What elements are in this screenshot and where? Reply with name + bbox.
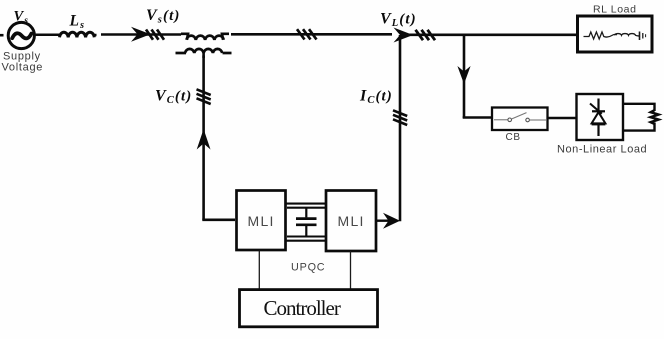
wire VC branch (series injection) xyxy=(202,56,205,221)
wire bus to RL load xyxy=(402,33,577,36)
svg-text:RL Load: RL Load xyxy=(593,4,637,16)
dc link wire bottom pair xyxy=(285,237,326,241)
wire IC branch (shunt) xyxy=(399,35,402,221)
arrow on bus at load side xyxy=(394,28,414,43)
label UPQC xyxy=(291,262,325,274)
label Supply Voltage xyxy=(2,51,44,74)
label IC(t) xyxy=(359,88,393,107)
label CB xyxy=(506,132,521,143)
wire transformer to VL slashes xyxy=(231,33,392,36)
transformer T1 secondary winding xyxy=(176,49,232,58)
wire Ls to arrow (with small break) xyxy=(94,33,181,36)
MLI box U2 (shunt inverter) xyxy=(326,191,376,252)
svg-text:VC(t): VC(t) xyxy=(155,88,192,107)
Controller box xyxy=(240,290,378,327)
label Vs(t) xyxy=(146,7,180,26)
svg-text:MLI: MLI xyxy=(248,213,275,229)
control line from MLI U2 to controller xyxy=(350,251,352,290)
RL Load box xyxy=(578,16,653,52)
arrow on supply bus (power flow) xyxy=(131,27,151,42)
svg-text:CB: CB xyxy=(506,132,521,143)
label Non-Linear Load xyxy=(557,144,647,156)
svg-text:VL(t): VL(t) xyxy=(380,11,417,30)
inductor Ls xyxy=(60,32,95,37)
wire VC branch to series MLI xyxy=(202,219,235,222)
label Ls xyxy=(69,13,86,32)
dc link wire top pair xyxy=(285,204,326,208)
three-phase slashes on VC branch xyxy=(197,89,211,104)
ac source Vs (supply voltage source) xyxy=(8,22,34,48)
wires NL load to side inductor xyxy=(623,104,655,131)
svg-text:Ls: Ls xyxy=(69,13,86,32)
inductor of non-linear load xyxy=(651,110,659,124)
label VL(t) xyxy=(380,11,417,30)
wire stub at left edge xyxy=(0,34,4,37)
wire to CB box xyxy=(463,116,492,119)
MLI box U1 (series inverter) xyxy=(237,191,286,251)
svg-text:Controller: Controller xyxy=(264,296,341,320)
arrow up on VC branch xyxy=(197,129,211,150)
three-phase slashes after arrow xyxy=(146,30,164,40)
three-phase slashes on IC branch xyxy=(393,110,407,125)
three-phase slashes after VL arrow xyxy=(416,30,436,40)
svg-text:Vs: Vs xyxy=(14,9,30,27)
svg-text:MLI: MLI xyxy=(338,213,365,229)
svg-text:IC(t): IC(t) xyxy=(359,88,393,107)
circuit breaker CB box xyxy=(492,108,548,131)
wire branch down from bus junction xyxy=(463,34,466,118)
label Vs xyxy=(14,9,30,27)
svg-text:Voltage: Voltage xyxy=(2,62,44,74)
non-linear load box (thyristor bridge) xyxy=(577,94,624,140)
svg-text:UPQC: UPQC xyxy=(291,262,325,274)
svg-text:Non-Linear Load: Non-Linear Load xyxy=(557,144,647,156)
capacitor C (dc link) xyxy=(296,208,317,237)
wire CB to non-linear load xyxy=(548,117,577,119)
label RL Load xyxy=(593,4,637,16)
wire source to Ls xyxy=(35,34,61,37)
control line from MLI U1 to controller xyxy=(258,251,260,290)
transformer T1 primary winding xyxy=(181,34,229,40)
label VC(t) xyxy=(155,88,192,107)
svg-text:Vs(t): Vs(t) xyxy=(146,7,180,26)
arrow MLI U2 output to IC branch xyxy=(377,213,400,229)
three-phase slashes mid bus xyxy=(297,29,317,39)
arrow down to CB xyxy=(457,66,470,84)
